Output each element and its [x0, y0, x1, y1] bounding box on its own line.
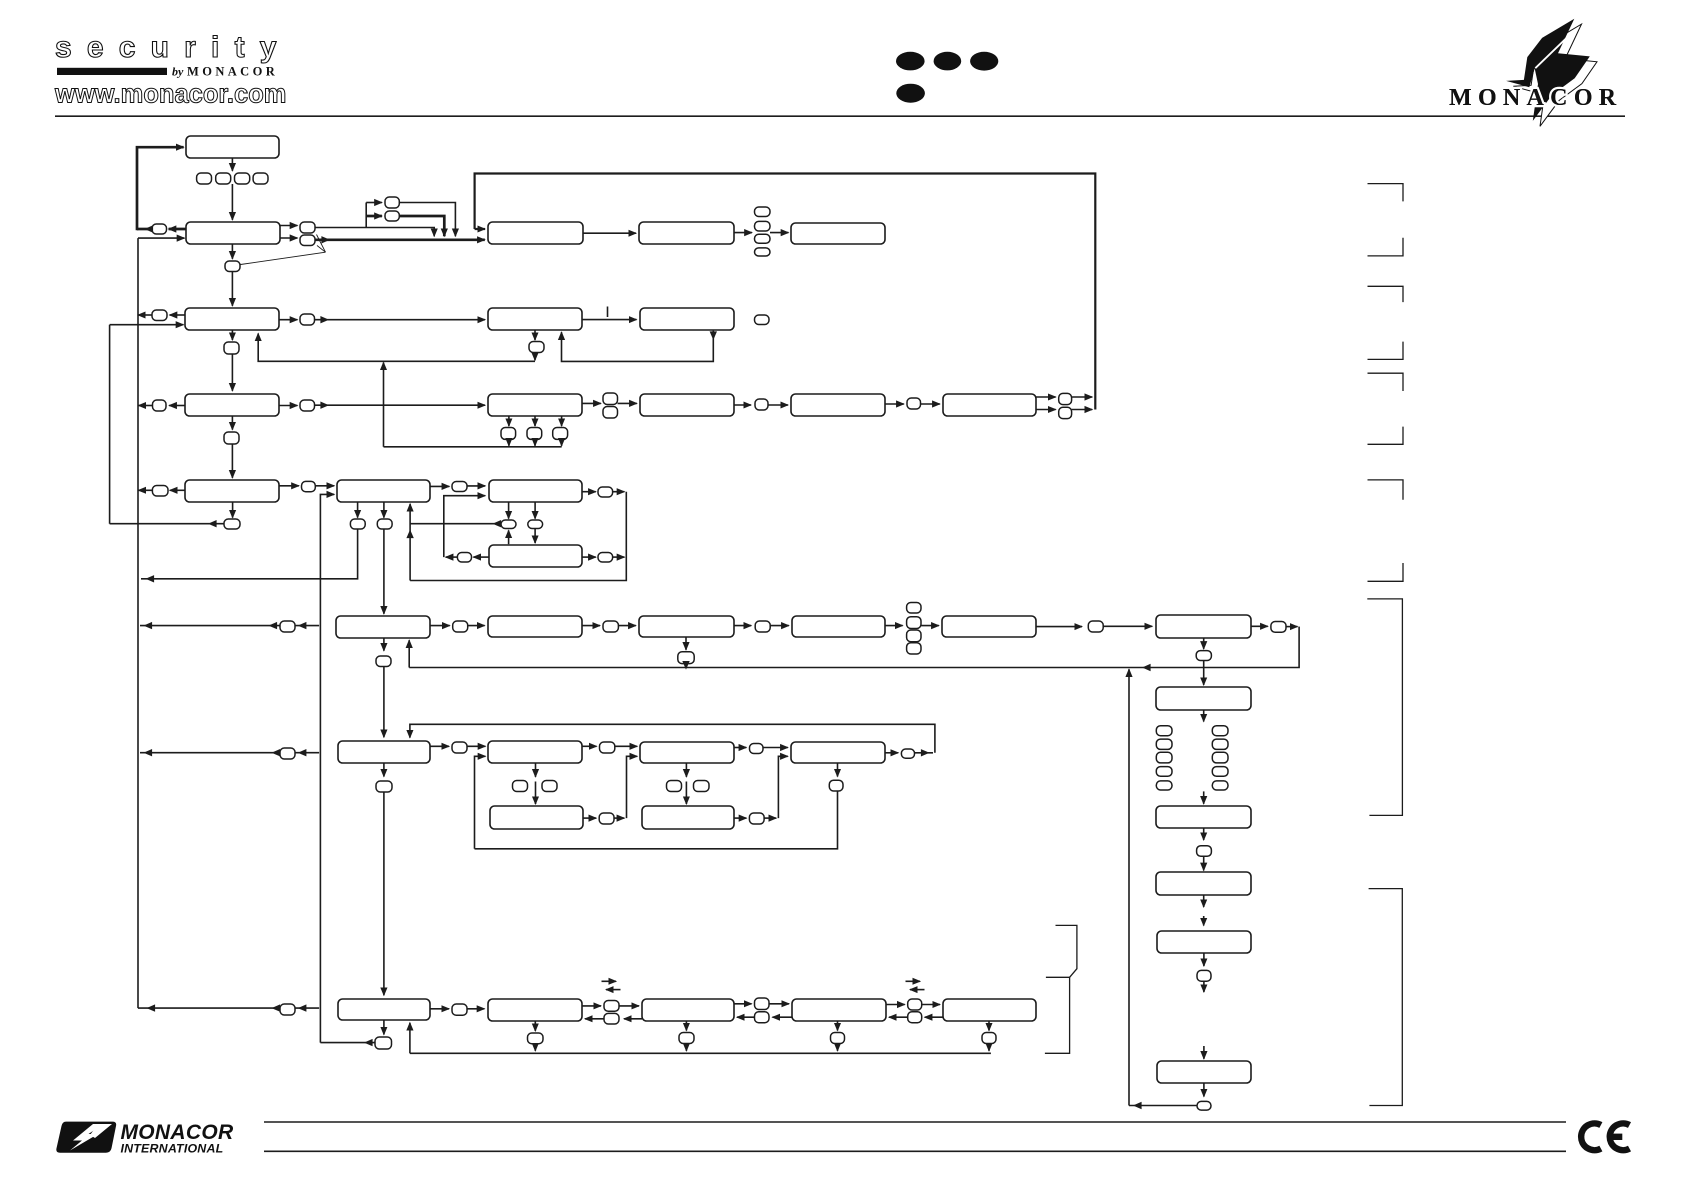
wire box3 to left pill	[170, 314, 185, 316]
B1 pill col 3	[907, 630, 921, 642]
wire B2 down	[383, 763, 385, 777]
pill under A1 left	[350, 519, 365, 529]
wire B3c to pair lower	[624, 1018, 642, 1020]
pointer bracket upper	[1056, 925, 1077, 977]
wire rail3 into A1	[320, 494, 334, 1042]
wire B2 sub down to B3	[383, 792, 385, 995]
footer line 1	[264, 1121, 1566, 1123]
wire RC1 down	[1203, 710, 1205, 722]
wire pillcol to T3	[770, 232, 788, 234]
wire R3a sub down 1	[508, 416, 510, 426]
arrowhead B2 line mid	[272, 749, 281, 756]
wire A3 up into pill	[508, 530, 510, 544]
svg-text:INTERNATIONAL: INTERNATIONAL	[121, 1142, 224, 1156]
S1 key pill left	[513, 781, 528, 792]
wire B1 return up	[408, 640, 410, 667]
arrowhead loop into rail	[145, 225, 154, 232]
wire keypills to box2	[231, 184, 233, 220]
wire pill to B2b	[467, 745, 485, 747]
wire pill to B1b	[468, 625, 485, 627]
S2 key pill left	[667, 781, 682, 792]
box B3	[338, 999, 430, 1020]
wire pair upper to B3c	[619, 1005, 639, 1007]
wire box1 to keypills	[231, 158, 233, 171]
wire R3a sub return	[384, 446, 562, 448]
wire pill under M1 down	[534, 353, 536, 361]
arrowhead B3 line near rail	[147, 1004, 156, 1011]
row3 left pill	[152, 310, 167, 321]
wire A1 sub left to rail	[141, 529, 358, 579]
T pill col 3	[755, 234, 771, 243]
pill under A2 right	[528, 520, 543, 529]
wire pill to B1c	[618, 625, 635, 627]
wire B1 return	[409, 627, 1299, 668]
wire box2 down	[231, 244, 233, 259]
wire end pill upper to feedback	[1072, 396, 1093, 398]
wire A1 down left	[357, 502, 359, 518]
box row2	[186, 222, 280, 244]
wire RC4 sub drop	[1203, 981, 1205, 992]
wire feedback into T1	[475, 228, 485, 230]
wire pair lower to B3d	[889, 1016, 908, 1018]
pill B1-B1b	[453, 621, 468, 632]
wire pill to B2d	[763, 747, 788, 749]
wire box5 to left pill	[170, 489, 185, 491]
pill under RC5	[1197, 1101, 1211, 1110]
wire B2d down	[837, 763, 839, 777]
box M1	[488, 308, 582, 330]
wire A3 return up into A2	[444, 496, 485, 557]
page marker dot 3	[970, 52, 998, 71]
wire A1 down right	[383, 502, 385, 518]
wire R3a sub down 3	[561, 416, 563, 426]
box B2d	[791, 742, 885, 763]
wire B1c to pill	[734, 625, 751, 627]
box RC2	[1156, 806, 1251, 828]
wire RC5 sub to left	[1129, 1105, 1197, 1107]
wire A2 down right	[534, 502, 536, 519]
margin mark m3 end	[1368, 427, 1404, 445]
wire B3b sub drop	[534, 1044, 536, 1051]
wire pill to B3b	[467, 1008, 484, 1010]
wire pill under box4 down	[231, 444, 233, 478]
wire B2 to pill	[430, 745, 449, 747]
wire M1 to M2	[582, 319, 637, 321]
A2 right pill	[598, 487, 613, 497]
box R3d	[943, 394, 1036, 416]
RC key pill L3	[1156, 752, 1172, 763]
wire S1 pill out	[614, 817, 624, 819]
T pill col 4	[755, 248, 771, 256]
box R3c	[791, 394, 885, 416]
wire pill down into A3	[534, 529, 536, 544]
wire B1f down	[1203, 638, 1205, 649]
pill under box4	[224, 432, 239, 444]
wire S1 up into B2c	[627, 756, 638, 818]
wire pill to R3d	[921, 403, 940, 405]
B3c pair pill upper	[755, 998, 770, 1010]
arrowhead into B3 pill	[298, 1004, 307, 1011]
loop pill	[152, 224, 167, 234]
callout line a	[317, 235, 326, 253]
box B2b	[488, 741, 582, 763]
wire R3c to pill	[885, 403, 904, 405]
box T2	[639, 222, 734, 244]
wire A2 to right pill	[582, 491, 596, 493]
box A2	[489, 480, 582, 502]
wire pill to B2c	[615, 745, 637, 747]
wire M row return left	[258, 334, 535, 362]
wire RC5 down	[1203, 1083, 1205, 1097]
wire S2 pill out	[764, 817, 776, 819]
wire box2 to mode pill upper	[280, 225, 297, 227]
key pill 4	[253, 173, 268, 184]
pill under B2	[376, 781, 392, 792]
pill under B3e	[982, 1033, 996, 1044]
RC key pill R1	[1212, 726, 1228, 736]
pill under B1f	[1196, 651, 1211, 661]
box row4 left	[185, 394, 279, 416]
arrowhead into B1 pill	[298, 622, 307, 629]
arrowhead B1 return mid	[1142, 664, 1151, 671]
wire upper pill run	[315, 228, 434, 237]
wire A right vertical	[410, 492, 626, 581]
wire lower pill to T1	[315, 238, 485, 241]
margin mark m4 start	[1368, 480, 1404, 500]
B3d pair pill lower	[908, 1012, 922, 1023]
S1 right pill	[599, 813, 614, 824]
box B1f	[1156, 615, 1251, 638]
wire R3d to end pill lower	[1036, 409, 1056, 411]
margin mark m2 start	[1368, 286, 1404, 302]
wire S2 up into B2d	[778, 756, 787, 818]
wire T2 to pillcol	[734, 232, 752, 234]
wire rail1	[109, 325, 111, 524]
wire B1e to pill	[1036, 626, 1082, 628]
wire A2 sub left line	[410, 523, 501, 525]
CE mark C	[1581, 1123, 1601, 1150]
arrowhead A return mid	[406, 530, 413, 539]
svg-text:MONACOR: MONACOR	[1449, 85, 1622, 111]
wire M1 down	[534, 330, 536, 340]
margin mark m1 start	[1368, 184, 1404, 202]
B1 pill col 1	[907, 603, 921, 614]
wire B3 return up	[409, 1023, 411, 1054]
wire S1 to pill	[583, 817, 596, 819]
arrowhead direction row3 line	[320, 316, 329, 323]
wire rail1 to box3 entry	[110, 324, 184, 326]
pill under A2 left	[501, 520, 516, 529]
wire A2 down left	[508, 502, 510, 519]
wire B3d down	[837, 1021, 839, 1031]
wire box4 down	[231, 416, 233, 430]
arrowhead direction row4 line	[320, 402, 329, 409]
svg-text:MONACOR: MONACOR	[121, 1121, 234, 1144]
box R3b	[640, 394, 734, 416]
mode pill upper	[300, 222, 315, 233]
wire into S2	[685, 782, 687, 805]
wire into S1	[535, 782, 537, 805]
wire RC pills to RC2	[1203, 791, 1205, 803]
box A1	[337, 480, 430, 502]
wire pill to B1f	[1103, 625, 1152, 627]
wire pillcol to B1e	[921, 625, 939, 627]
tick mark	[607, 307, 609, 318]
pill A1-A2	[452, 482, 467, 492]
wire pill B run	[399, 216, 444, 236]
legend arrow left B3b	[606, 989, 621, 991]
box RC1	[1156, 687, 1251, 710]
monacor logo bolt	[1506, 19, 1590, 121]
box row3 left	[185, 308, 279, 330]
arrowhead B1c sub onto return	[682, 661, 689, 670]
wire pill under box3 down	[231, 354, 233, 391]
margin bracket B1	[1367, 599, 1402, 816]
T pill col 2	[755, 221, 771, 231]
box RC3	[1156, 872, 1251, 895]
legend arrow right B3b	[602, 980, 617, 982]
S2 right pill	[749, 813, 764, 824]
wire box2 to mode pill lower	[280, 237, 297, 239]
wire box4 to left pill	[169, 405, 185, 407]
box B1b	[488, 616, 582, 637]
wire B2 left line	[140, 752, 319, 754]
RC key pill R2	[1212, 739, 1228, 749]
B1 pill col 4	[907, 643, 921, 654]
wire rail to box2 entry	[138, 237, 184, 239]
wire M2 return	[562, 331, 714, 362]
monacor logo bolt slash	[1535, 38, 1566, 68]
wire B2b to pill	[582, 745, 597, 747]
pill under B2d	[829, 780, 843, 791]
wire B2d pill to corner	[915, 752, 934, 754]
box M2	[640, 308, 734, 330]
monacor intl badge bolt	[70, 1124, 103, 1151]
B3d pair pill upper	[908, 999, 922, 1010]
wire R3a sub pill3 drop	[561, 439, 563, 445]
wire RC4 down	[1203, 953, 1205, 966]
wire B1f pill to down leg	[1286, 626, 1298, 628]
wire B3e to pair lower	[925, 1016, 943, 1018]
wire RC2 sub to RC3	[1203, 856, 1205, 870]
box RC4	[1157, 931, 1251, 953]
arrowhead on M2 return	[710, 331, 717, 340]
wire S2 to pill	[734, 817, 746, 819]
wire end pill lower to feedback	[1072, 409, 1093, 411]
wire B2b down	[535, 763, 537, 777]
legend arrow right B3d	[906, 980, 921, 982]
box RC5	[1157, 1061, 1251, 1083]
wire B1 left line	[140, 625, 319, 627]
pill under M1	[529, 342, 544, 353]
wire pill to A2	[467, 485, 485, 487]
RC key pill L1	[1156, 726, 1172, 736]
RC key pill L4	[1156, 767, 1172, 777]
wire row3 to M1	[315, 319, 486, 321]
svg-text:by: by	[172, 65, 184, 79]
wire B3 left line	[138, 1007, 319, 1009]
box B2c	[640, 742, 734, 763]
B1 left pill	[280, 621, 295, 632]
monacor intl badge wedge	[90, 1124, 112, 1138]
pill under B1c	[678, 652, 694, 664]
arrowhead B3 line mid	[272, 1004, 281, 1011]
wire A2 right pill out	[613, 491, 625, 493]
B1 pill col 2	[907, 617, 921, 629]
svg-text:www.monacor.com: www.monacor.com	[54, 81, 286, 109]
R3d end pill lower	[1059, 407, 1072, 418]
pill under B3b	[528, 1033, 544, 1044]
box row1 main menu	[186, 136, 279, 158]
wire box5 sub to rail1	[110, 523, 224, 525]
wire branch to pill B	[366, 215, 382, 218]
ok pill row2	[225, 261, 240, 272]
box B3d	[792, 999, 886, 1021]
wire row5 pill to A1	[315, 485, 334, 487]
wire B1b to pill	[582, 625, 600, 627]
wire ok pill to box3	[231, 272, 233, 306]
box T3	[791, 223, 885, 244]
arrowhead direction A2 sub	[493, 520, 502, 527]
wire box3 to right pill	[279, 319, 297, 321]
row4 left pill	[153, 400, 167, 411]
arrowhead RC5 sub into rail	[1133, 1102, 1142, 1109]
wire left rail	[137, 238, 139, 1008]
wire A3 to left pill	[473, 556, 489, 558]
CE mark E arc	[1610, 1123, 1630, 1150]
A3 left pill	[457, 553, 471, 563]
box S1	[490, 806, 583, 829]
arrowhead B3 sub	[364, 1039, 373, 1046]
pill B1b-B1c	[603, 621, 618, 632]
B1f right pill	[1271, 622, 1286, 633]
wire S1 return up into B2b	[475, 756, 486, 849]
wire pair upper to B3e	[922, 1004, 940, 1006]
wire branch to pill A	[366, 202, 382, 204]
wire A return up into A1	[409, 504, 411, 581]
wire pair to R3b	[618, 402, 637, 404]
RC key pill L2	[1156, 739, 1172, 749]
pill A	[385, 197, 399, 208]
wire B3e down	[988, 1021, 990, 1031]
arrowhead direction on main line	[321, 236, 330, 243]
pill right of M2	[755, 315, 770, 325]
wire RC return rail up	[1128, 669, 1130, 1105]
arrowhead B2 line to rail	[144, 749, 153, 756]
wire B3d sub drop	[837, 1044, 839, 1051]
wire pair upper to B3d	[769, 1003, 789, 1005]
wire box2 to loop pill	[169, 228, 186, 231]
footer line 2	[264, 1150, 1566, 1152]
A3 right pill	[598, 553, 613, 563]
R3a sub pill 1	[501, 428, 516, 440]
arrowhead B1 line mid	[269, 622, 278, 629]
wire B1 sub down to B2	[383, 667, 385, 738]
pill under RC2	[1197, 846, 1212, 857]
pill under B3d	[831, 1033, 845, 1044]
wire R3b to pill	[734, 404, 751, 406]
wire box4 to right pill	[279, 405, 297, 407]
wire A3 to right pill	[582, 556, 596, 558]
RC key pill L5	[1156, 781, 1172, 790]
RC key pill R3	[1212, 752, 1228, 763]
arrowhead into B2 pill	[298, 749, 307, 756]
wire B3 down	[383, 1020, 385, 1035]
pill under RC4	[1197, 970, 1211, 981]
wire R3d to end pill upper	[1036, 396, 1056, 398]
pill B2b-B2c	[600, 742, 615, 753]
wire A3 left pill out	[446, 556, 458, 558]
pill under B1	[376, 656, 391, 667]
wire B3d to pair lower	[773, 1016, 793, 1018]
S2 key pill right	[694, 781, 710, 792]
pill R3b-R3c	[755, 399, 768, 410]
T pill col 1	[755, 207, 771, 217]
pointer bracket lower	[1045, 977, 1070, 1053]
wire B1d to pillcol	[885, 625, 903, 627]
R3d end pill upper	[1059, 393, 1072, 404]
box T1	[488, 222, 583, 244]
pill under box3	[224, 342, 239, 354]
wire B2 return from right	[410, 724, 935, 753]
RC key pill R5	[1212, 781, 1228, 790]
wire pair lower to B3b	[585, 1018, 604, 1020]
wire RC2 down	[1203, 828, 1205, 840]
wire A3 right pill out	[613, 556, 625, 558]
margin mark m1 end	[1368, 238, 1404, 256]
monacor intl badge	[56, 1122, 116, 1153]
box B3c	[642, 999, 734, 1021]
wire row5 left pill to rail	[139, 489, 153, 491]
wire B3c down	[685, 1021, 687, 1031]
page marker dot 1	[896, 52, 925, 71]
R3a pair pill lower	[603, 407, 618, 419]
margin mark m2 end	[1368, 342, 1404, 360]
wire B2d to right pill	[885, 752, 898, 754]
wire R3a sub down 2	[534, 416, 536, 426]
callout line c	[241, 252, 326, 264]
B2 left pill	[280, 748, 295, 759]
arrowhead B2d pill out	[921, 749, 930, 756]
box R3a	[488, 394, 582, 416]
wire B3 to pill	[430, 1008, 449, 1010]
row5 left pill	[152, 486, 168, 497]
wire B3d to pair upper	[886, 1004, 905, 1006]
wire B2c to pill	[734, 747, 746, 749]
key pill 1	[197, 173, 212, 184]
wire merge from below	[383, 363, 385, 447]
box B3e	[943, 999, 1036, 1021]
pill B1c-B1d	[755, 621, 770, 632]
B3b pair pill upper	[604, 1001, 619, 1012]
B3b pair pill lower	[604, 1013, 619, 1024]
wire into RC5	[1203, 1046, 1205, 1059]
wire pill to B1d	[770, 625, 789, 627]
wire branch up	[365, 203, 367, 228]
security underline bar	[57, 68, 167, 75]
S1 key pill right	[542, 781, 557, 792]
pill under A1 right	[377, 519, 392, 529]
page marker dot 2	[934, 52, 962, 71]
legend arrow left B3d	[910, 989, 925, 991]
row3 right pill	[300, 314, 315, 325]
wire A1 to pill	[430, 485, 449, 487]
feedback rect top and right	[475, 174, 1096, 410]
pill under B3c	[679, 1033, 694, 1044]
wire pill A run	[399, 203, 455, 237]
box B2	[338, 741, 430, 763]
wire B3 sub to rail3	[320, 1042, 375, 1044]
